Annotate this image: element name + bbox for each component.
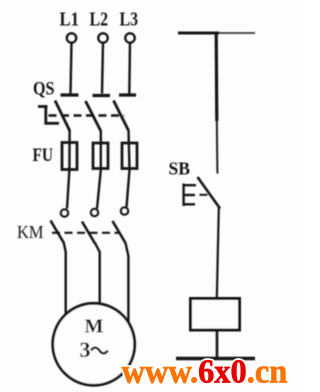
svg-text:www.6x0.cn: www.6x0.cn bbox=[122, 353, 288, 391]
svg-text:SB: SB bbox=[169, 159, 191, 179]
svg-text:QS: QS bbox=[33, 79, 55, 100]
svg-text:3: 3 bbox=[80, 337, 91, 362]
svg-text:L1: L1 bbox=[60, 9, 80, 31]
svg-text:FU: FU bbox=[33, 145, 54, 166]
svg-text:L2: L2 bbox=[90, 9, 109, 31]
svg-text:KM: KM bbox=[17, 222, 44, 242]
svg-text:M: M bbox=[85, 316, 104, 338]
svg-text:L3: L3 bbox=[120, 9, 139, 31]
